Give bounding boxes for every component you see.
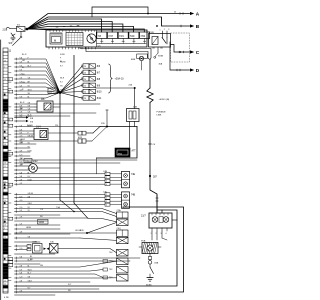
svg-text:9-S: 9-S <box>20 270 24 272</box>
svg-text:3: 3 <box>4 116 5 118</box>
wire star to connector y91.5 <box>60 92 82 93</box>
connector 745 <box>50 244 59 254</box>
svg-text:7/19: 7/19 <box>119 35 124 38</box>
svg-text:2: 2 <box>164 29 165 31</box>
wires to 16/4 <box>15 130 35 132</box>
svg-text:8: 8 <box>9 184 10 186</box>
connector 5/1 at fan <box>17 27 26 32</box>
connector X2 <box>117 237 129 243</box>
wire row y258 <box>15 257 141 259</box>
wire row y113 <box>15 112 97 114</box>
arrow A <box>190 12 194 15</box>
wire row y83 to star <box>15 83 61 93</box>
svg-text:+S28-1 (B): +S28-1 (B) <box>159 99 170 101</box>
connector C6 tick <box>149 143 152 145</box>
svg-text:SB-R: SB-R <box>28 90 33 92</box>
svg-text:GR: GR <box>22 60 25 62</box>
wire fan to fuse 7/3 <box>27 24 123 32</box>
svg-text:24: 24 <box>84 92 86 94</box>
svg-text:Y-R: Y-R <box>28 78 32 80</box>
wire row y229 <box>15 228 61 230</box>
svg-text:74B: 74B <box>131 195 136 197</box>
connector 8/10 <box>81 90 83 92</box>
svg-text:VO: VO <box>28 143 31 145</box>
wire row y79 to star <box>15 79 61 93</box>
svg-text:1-S: 1-S <box>20 224 24 226</box>
svg-text:1-G: 1-G <box>20 277 24 279</box>
svg-text:3/6: 3/6 <box>30 121 34 123</box>
relay 21/8 box <box>149 34 171 48</box>
svg-text:BL: BL <box>28 62 30 64</box>
svg-text:FUSIBLE: FUSIBLE <box>157 111 167 113</box>
cluster sub-connector M <box>50 33 62 44</box>
svg-text:2-B: 2-B <box>20 281 24 283</box>
component ATT M11 <box>115 148 130 157</box>
svg-text:GN: GN <box>28 237 31 239</box>
svg-text:11: 11 <box>4 166 6 168</box>
connector C2A <box>117 212 129 218</box>
svg-text:C: C <box>196 50 200 55</box>
svg-text:8/9: 8/9 <box>97 84 101 87</box>
wire row y211.5 <box>15 212 117 217</box>
fuse 7/92 <box>140 32 150 39</box>
unit inner box <box>159 217 163 223</box>
svg-text:2-R: 2-R <box>20 112 24 114</box>
svg-text:1: 1 <box>9 219 10 221</box>
wire row y91 to star <box>15 91 61 93</box>
svg-text:8/8: 8/8 <box>97 78 101 81</box>
svg-text:30A: 30A <box>159 63 163 66</box>
wire star to connector y85.3 <box>60 85 82 92</box>
svg-text:C6: C6 <box>153 144 156 146</box>
wire 5/1 down <box>20 31 22 36</box>
svg-text:ATT: ATT <box>132 150 137 153</box>
svg-text:226: 226 <box>129 85 133 87</box>
svg-text:8/7: 8/7 <box>97 71 101 74</box>
connector C6Q <box>117 230 129 236</box>
wire diag y271 <box>15 270 104 272</box>
svg-text:4-S: 4-S <box>20 183 24 185</box>
wire star to connector y66 <box>60 66 82 93</box>
wire row y282 <box>15 281 91 283</box>
wire row y295 <box>15 294 56 296</box>
svg-text:24: 24 <box>84 85 86 87</box>
svg-text:BL-R: BL-R <box>20 102 25 104</box>
svg-text:5-B: 5-B <box>20 176 24 178</box>
wire row y156 <box>15 155 31 157</box>
svg-text:M: M <box>54 39 56 43</box>
svg-text:BL: BL <box>30 256 32 258</box>
bulb 86/8 <box>137 54 148 59</box>
wire row y148 <box>15 147 31 149</box>
connector 7/64 <box>117 250 129 257</box>
relay contact <box>162 31 164 38</box>
svg-text:GR/B: GR/B <box>26 227 32 229</box>
splice symbol S/P <box>11 33 14 37</box>
node 287 <box>149 175 151 177</box>
svg-text:24/2: 24/2 <box>33 161 38 163</box>
svg-text:R-Y: R-Y <box>28 176 32 178</box>
switch 16/4 box <box>34 129 48 140</box>
wire corner right <box>97 127 138 159</box>
relay to D <box>170 42 190 70</box>
svg-text:4: 4 <box>166 233 167 235</box>
wire row y87 to star <box>15 87 61 93</box>
svg-text:1: 1 <box>106 174 107 176</box>
svg-text:18: 18 <box>4 138 6 140</box>
relay bottom pin <box>157 47 159 53</box>
arrows between <box>44 248 47 250</box>
svg-text:Y-R: Y-R <box>28 109 32 111</box>
svg-text:7/47: 7/47 <box>108 35 113 38</box>
svg-text:15: 15 <box>4 113 6 115</box>
svg-text:1: 1 <box>151 233 152 235</box>
wire row y242 <box>15 241 41 243</box>
svg-text:25: 25 <box>4 79 6 81</box>
wire SVB down <box>149 254 151 257</box>
svg-text:3: 3 <box>168 29 169 31</box>
svg-text:7-R: 7-R <box>20 217 24 219</box>
fuse 7/8 <box>97 32 107 39</box>
svg-text:BL: BL <box>28 97 30 99</box>
svg-text:BR: BR <box>28 82 31 84</box>
wire row y144 <box>15 143 37 145</box>
switch GMB <box>33 244 43 254</box>
wire row y141 <box>15 140 79 142</box>
wire cluster pin to link b <box>86 47 150 60</box>
svg-text:6-G: 6-G <box>20 155 24 157</box>
diag star to row <box>60 200 74 212</box>
svg-text:4-R: 4-R <box>20 232 24 234</box>
wire pin ticks at strip exit <box>15 58 17 60</box>
svg-text:C6Q: C6Q <box>117 228 122 230</box>
connector 8/7 <box>81 71 83 73</box>
ground G31/86 <box>147 277 153 279</box>
svg-text:2: 2 <box>106 177 107 179</box>
cluster LCD matrix <box>66 33 83 46</box>
svg-text:GN: GN <box>40 265 43 267</box>
brace +30A-10 <box>109 64 113 93</box>
connector 7/63 <box>117 258 129 265</box>
diag x74 to row <box>74 203 117 222</box>
svg-text:2: 2 <box>9 79 10 81</box>
svg-text:16B: 16B <box>133 107 137 109</box>
svg-text:8-S: 8-S <box>20 133 24 135</box>
loop outer drop <box>122 207 124 208</box>
fusible link zigzag <box>147 88 153 103</box>
left connector strip 11/x <box>0 40 2 300</box>
svg-text:25: 25 <box>4 181 6 183</box>
svg-text:GR: GR <box>28 103 31 105</box>
svg-text:R-Y: R-Y <box>28 288 32 290</box>
svg-text:BL: BL <box>28 248 30 250</box>
svg-text:SB-R: SB-R <box>28 245 33 247</box>
wire fan to fuse 7/4 <box>27 27 134 33</box>
wires to 24/2 <box>15 165 29 167</box>
connector 7/62 <box>117 267 129 274</box>
wire row y215 <box>15 214 61 216</box>
svg-text:764: 764 <box>109 252 113 254</box>
fan motor unit 21/7 box <box>149 213 172 228</box>
wire 9/8 out <box>53 103 100 105</box>
svg-text:Y-R: Y-R <box>28 169 32 171</box>
svg-text:BL: BL <box>60 61 62 63</box>
svg-text:C6B: C6B <box>154 263 159 265</box>
svg-text:7/92: 7/92 <box>140 35 145 38</box>
wire row y163 <box>15 162 121 164</box>
svg-text:3-R: 3-R <box>20 151 24 153</box>
svg-text:2/28: 2/28 <box>3 29 8 32</box>
node fan junction S1 <box>26 28 29 31</box>
ground G1 near fan <box>11 37 15 39</box>
GMB pins <box>27 245 31 248</box>
svg-text:2: 2 <box>106 198 107 200</box>
cluster pin vertical x74 <box>73 55 75 203</box>
svg-text:GR: GR <box>20 164 23 166</box>
module dashed boundary <box>171 33 190 62</box>
svg-text:GR-SB: GR-SB <box>28 193 34 195</box>
wire row y221 <box>15 220 49 222</box>
svg-text:GR: GR <box>28 106 31 108</box>
wire 21/7 to loop <box>172 219 177 221</box>
svg-text:2-G: 2-G <box>20 136 24 138</box>
svg-text:543B: 543B <box>39 222 45 224</box>
wire fan to fuse 7/5 <box>27 29 144 32</box>
svg-text:8/10: 8/10 <box>97 91 102 94</box>
svg-text:24: 24 <box>84 72 86 74</box>
svg-text:9-S: 9-S <box>20 70 24 72</box>
svg-text:11: 11 <box>9 50 12 53</box>
svg-text:745: 745 <box>50 242 54 244</box>
svg-text:R-Y: R-Y <box>60 65 64 67</box>
svg-text:GR: GR <box>28 277 31 279</box>
svg-text:VO: VO <box>28 147 31 149</box>
wire fan to cluster pin 2 <box>27 29 64 30</box>
svg-text:7/8: 7/8 <box>98 35 102 38</box>
fuse panel bottom rail <box>97 43 146 45</box>
svg-text:GN-R: GN-R <box>20 139 25 141</box>
wiring diagram page <box>0 0 203 300</box>
svg-text:6-B: 6-B <box>20 130 24 132</box>
svg-text:SB: SB <box>40 216 43 218</box>
svg-text:D: D <box>196 68 200 73</box>
wire row y254 <box>15 253 56 255</box>
wire to arrow B <box>27 17 190 29</box>
svg-text:74E: 74E <box>131 174 136 176</box>
wire diag y274 <box>15 274 104 278</box>
motor M2 <box>163 217 169 223</box>
svg-text:BL: BL <box>22 67 24 69</box>
wire row y289 <box>15 288 100 290</box>
fuse 7/47 <box>108 32 118 39</box>
svg-text:21/7: 21/7 <box>141 215 146 218</box>
unit bottom pins <box>151 228 153 231</box>
svg-text:P: P <box>28 58 30 60</box>
svg-text:A: A <box>196 12 200 17</box>
svg-text:26: 26 <box>4 60 6 62</box>
connector C6B <box>148 261 152 265</box>
connector 8/8 <box>81 78 83 80</box>
arrow C <box>190 50 194 53</box>
connector 8/11 <box>81 97 83 99</box>
wire node 226 to 16B <box>134 88 136 109</box>
cluster top pins <box>49 30 51 32</box>
wire row y264 <box>15 263 41 265</box>
svg-text:9/8: 9/8 <box>41 98 45 101</box>
relay feed wire <box>156 25 158 27</box>
svg-text:2-G: 2-G <box>20 207 24 209</box>
relay 9/8 box <box>37 101 53 112</box>
wire row y218 <box>15 217 89 219</box>
svg-text:8: 8 <box>4 228 5 230</box>
wire row y208.5 <box>15 209 117 214</box>
svg-text:3: 3 <box>106 181 107 183</box>
svg-text:GR-SB: GR-SB <box>28 136 34 138</box>
switch S1 <box>149 264 151 267</box>
svg-text:B: B <box>196 24 200 29</box>
boxed label 543B <box>38 220 49 225</box>
wire row y116 <box>15 115 71 117</box>
svg-text:5-S: 5-S <box>20 210 24 212</box>
svg-text:GR-SB: GR-SB <box>75 230 82 232</box>
svg-text:1: 1 <box>160 30 161 32</box>
svg-text:15: 15 <box>4 237 6 239</box>
svg-text:VO: VO <box>28 207 31 209</box>
wire upper loop y7 <box>92 7 148 17</box>
wire cluster pin to link a <box>80 47 151 60</box>
svg-text:24: 24 <box>4 281 6 283</box>
motor M1 <box>152 217 158 223</box>
svg-text:86/8: 86/8 <box>131 59 136 61</box>
svg-text:4: 4 <box>106 184 107 186</box>
svg-text:1: 1 <box>106 194 107 196</box>
wire fan to cluster pin 3 <box>27 29 71 30</box>
wire to arrow A <box>27 14 190 30</box>
cluster gauge dial <box>87 34 96 43</box>
wire 8/10 to node 226 <box>96 87 135 89</box>
svg-text:R-SB: R-SB <box>28 179 33 181</box>
svg-text:GN-R: GN-R <box>28 281 33 283</box>
svg-text:2-G: 2-G <box>20 248 24 250</box>
svg-text:9: 9 <box>9 265 10 267</box>
svg-text:BL: BL <box>28 266 30 268</box>
svg-text:226: 226 <box>101 123 105 125</box>
svg-text:R-Y: R-Y <box>60 81 64 83</box>
svg-text:P: P <box>60 57 62 59</box>
svg-text:9: 9 <box>9 126 10 128</box>
wire row y238 <box>15 237 81 239</box>
svg-text:16: 16 <box>4 200 6 202</box>
svg-text:22: 22 <box>4 284 6 286</box>
svg-text:SB-R: SB-R <box>28 270 33 272</box>
wire row y234 <box>15 233 71 235</box>
wire B+ vertical <box>149 60 151 89</box>
svg-text:1-B: 1-B <box>20 172 24 174</box>
wire rows to 9/8 <box>15 103 36 105</box>
wire diag y267 <box>15 261 117 267</box>
connector 8/9 <box>81 84 83 86</box>
wire row y63 to star <box>15 63 61 93</box>
arrow D <box>190 68 194 71</box>
wire row y160 <box>15 159 138 161</box>
stub wire 3/6 <box>15 120 27 122</box>
svg-text:LINK: LINK <box>157 115 162 117</box>
cluster bottom pins <box>48 47 50 49</box>
svg-text:2-R: 2-R <box>20 116 24 118</box>
wire y126 with node 226 <box>100 126 137 128</box>
wire row y71 to star <box>15 71 61 93</box>
svg-text:25: 25 <box>4 219 6 221</box>
svg-text:VO: VO <box>28 86 31 88</box>
wire star to connector y78.8 <box>60 79 82 93</box>
svg-text:4: 4 <box>106 205 107 207</box>
svg-text:5-S: 5-S <box>20 86 24 88</box>
wire into 5/1 <box>10 28 17 30</box>
connector X1 <box>117 219 129 226</box>
wire B+ vertical lower <box>150 103 157 214</box>
wire x96 drop <box>96 158 98 174</box>
loop inner <box>15 210 178 286</box>
svg-text:S/P: S/P <box>9 42 13 45</box>
svg-text:31/86: 31/86 <box>146 285 152 287</box>
svg-text:8/6: 8/6 <box>97 65 101 68</box>
wire row y261 <box>15 260 131 262</box>
wire fan to fuse 7/2 <box>27 22 112 33</box>
svg-text:P: P <box>28 133 30 135</box>
svg-text:7/29: 7/29 <box>130 35 135 38</box>
wire row y152 <box>15 151 31 153</box>
svg-text:4 2B: 4 2B <box>4 297 9 299</box>
svg-text:R-SB: R-SB <box>60 54 65 56</box>
svg-text:226: 226 <box>55 125 58 127</box>
svg-text:2: 2 <box>4 67 5 69</box>
svg-text:VO: VO <box>28 210 31 212</box>
connector 7/60 <box>117 275 129 282</box>
svg-text:24: 24 <box>84 98 86 100</box>
svg-text:762: 762 <box>109 269 113 271</box>
relay to C <box>171 45 190 53</box>
arrow B <box>190 24 194 27</box>
wire 16/4 to junction <box>48 132 78 134</box>
fuse 7/29 <box>129 32 139 39</box>
svg-text:6: 6 <box>9 153 10 155</box>
unit top feeds <box>156 195 158 213</box>
svg-text:4-G: 4-G <box>20 200 24 202</box>
wire row y59 to star <box>15 59 61 93</box>
wire row y67 to star <box>15 67 61 93</box>
svg-text:SB: SB <box>20 158 23 160</box>
wire row y233 with node 226 <box>15 232 117 234</box>
svg-text:+30A-10: +30A-10 <box>115 78 125 81</box>
wire fan to fuse 7/1 <box>27 19 102 32</box>
node star 28/4 <box>59 91 62 94</box>
svg-text:BL-Y: BL-Y <box>28 66 33 68</box>
wire row y127 <box>15 126 101 128</box>
wire fan to cluster pin 4 <box>27 29 78 30</box>
wire GMB out <box>58 249 117 253</box>
unit drops <box>151 231 153 240</box>
wire row y278 <box>15 277 117 279</box>
wire star to connector y72.3 <box>60 72 82 92</box>
svg-text:S/GB: S/GB <box>158 56 164 58</box>
svg-text:3: 3 <box>106 201 107 203</box>
svg-text:BL-R: BL-R <box>22 54 27 56</box>
wire 24/2 out <box>37 167 60 169</box>
svg-text:C2A: C2A <box>117 209 122 212</box>
connector 8/6 <box>81 65 83 67</box>
svg-text:16: 16 <box>4 225 6 227</box>
svg-text:24: 24 <box>84 66 86 68</box>
